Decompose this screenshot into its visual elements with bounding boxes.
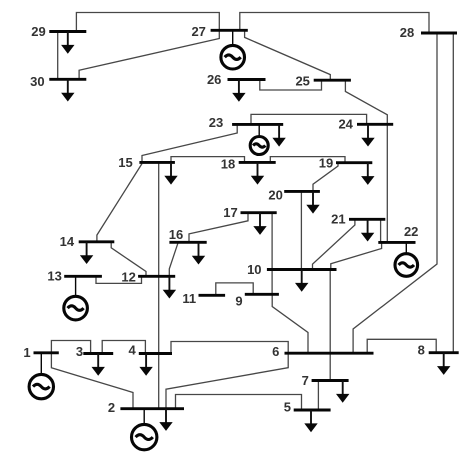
svg-text:15: 15 [118, 155, 132, 170]
svg-text:5: 5 [284, 399, 291, 414]
svg-text:4: 4 [128, 343, 136, 358]
svg-text:3: 3 [76, 344, 83, 359]
svg-text:26: 26 [207, 72, 221, 87]
svg-text:1: 1 [23, 345, 30, 360]
svg-text:14: 14 [60, 234, 75, 249]
svg-text:11: 11 [182, 291, 196, 306]
svg-text:22: 22 [404, 224, 418, 239]
svg-text:19: 19 [319, 155, 333, 170]
svg-text:8: 8 [418, 342, 425, 357]
svg-text:27: 27 [191, 24, 205, 39]
svg-text:20: 20 [268, 188, 282, 203]
svg-text:17: 17 [223, 205, 237, 220]
svg-text:12: 12 [121, 269, 135, 284]
svg-text:18: 18 [221, 157, 235, 172]
svg-text:23: 23 [209, 115, 223, 130]
svg-text:6: 6 [272, 344, 279, 359]
svg-text:7: 7 [302, 373, 309, 388]
svg-text:2: 2 [108, 400, 115, 415]
svg-text:25: 25 [295, 74, 309, 89]
svg-text:30: 30 [30, 74, 44, 89]
svg-text:29: 29 [31, 24, 45, 39]
svg-text:10: 10 [247, 262, 261, 277]
svg-text:16: 16 [169, 227, 183, 242]
svg-text:9: 9 [235, 294, 242, 309]
svg-text:28: 28 [400, 25, 414, 40]
svg-text:13: 13 [47, 269, 61, 284]
svg-text:24: 24 [338, 117, 353, 132]
svg-text:21: 21 [331, 211, 345, 226]
